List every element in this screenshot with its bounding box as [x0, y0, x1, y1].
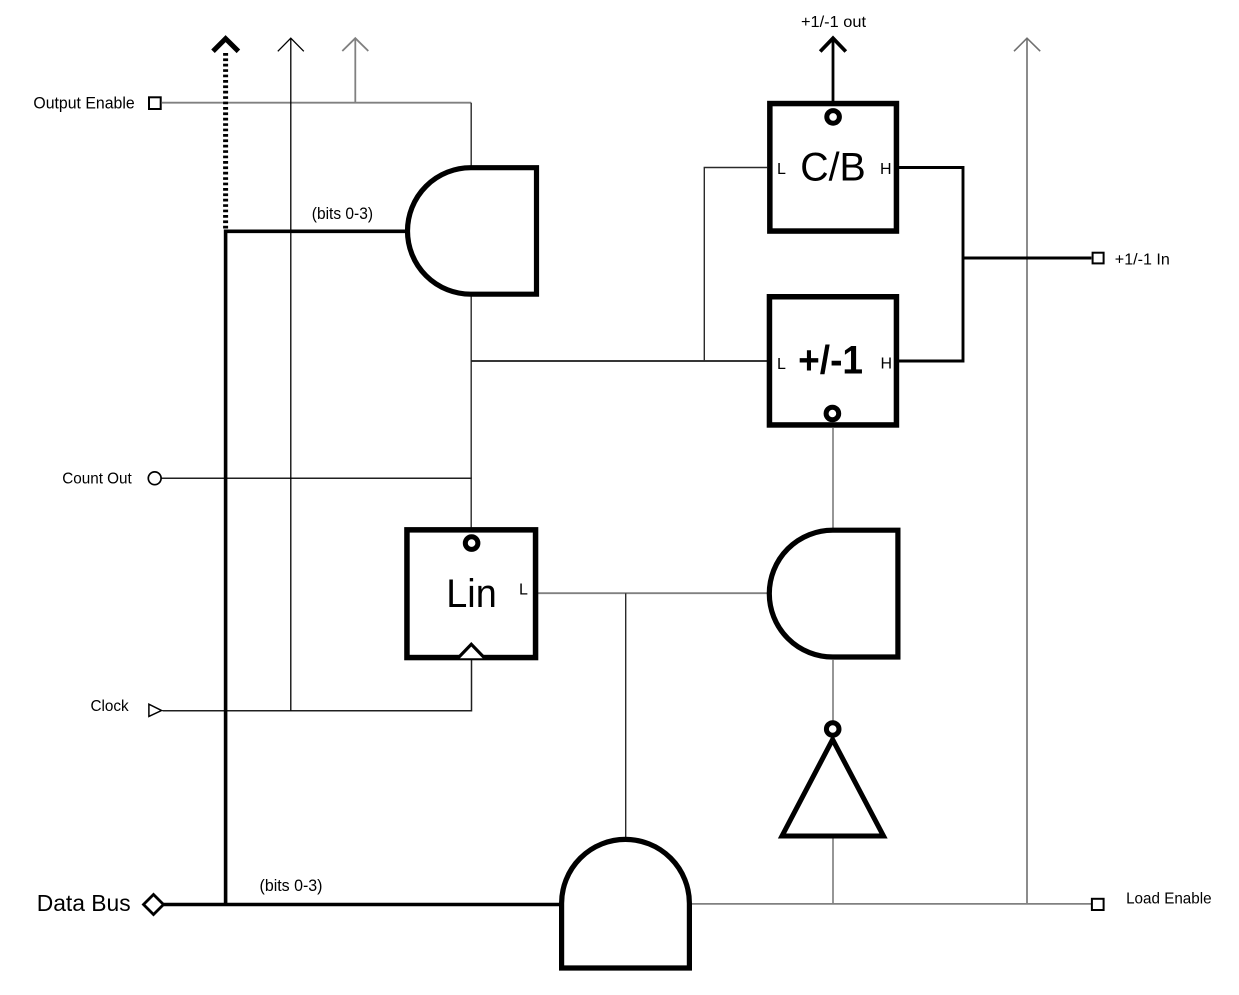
svg-text:H: H [880, 161, 892, 178]
wire: Lin output to AND G2 input (gray) with junction at x=625.7 [538, 592, 769, 594]
wire: vertical net x=471 from Output Enable down through AND gate G1 to Lin bubble [470, 103, 472, 529]
wire: Output Enable horizontal net (gray) [162, 102, 471, 104]
svg-text:H: H [881, 356, 893, 373]
svg-text:+1/-1 out: +1/-1 out [801, 14, 867, 31]
wire: dotted bus continuation x=225.6 above corner [223, 53, 228, 231]
terminal square: Output Enable [149, 97, 161, 109]
bubble on C/B top [827, 111, 840, 124]
wire: Data Bus thick horizontal from diamond into G3 [163, 903, 660, 907]
svg-text:Load Enable: Load Enable [1126, 891, 1212, 908]
box U3 Lin [407, 530, 536, 658]
wire: +1/-1 out stem above C/B [832, 41, 835, 102]
wire: Clock horizontal + riser to Lin clock pin [163, 660, 472, 711]
box U2 +/-1 [769, 297, 896, 425]
wire: Count Out horizontal [162, 477, 472, 479]
wire: +/-1 bubble down to G2 top [832, 428, 834, 528]
wire: vertical line x=355 gray with arrow, down to Output Enable wire [354, 39, 356, 103]
bubble on Lin top [465, 537, 478, 550]
svg-text:(bits 0-3): (bits 0-3) [260, 877, 323, 895]
clock chevron on Lin bottom edge [458, 644, 485, 658]
AND gate G2 (right-middle, facing left) [769, 530, 898, 657]
box U1 C/B [770, 104, 897, 232]
terminal circle: Count Out [148, 472, 161, 485]
arrow head bold dotted bus [213, 39, 238, 52]
svg-text:Output Enable: Output Enable [33, 95, 134, 113]
svg-text:L: L [777, 356, 786, 373]
wire: horizontal net y=361 from node x471 to +/-1 L pin [471, 360, 767, 362]
terminal square: +1/-1 In [1093, 253, 1104, 264]
terminal triangle: Clock [149, 704, 162, 716]
bubble on +/-1 bottom [826, 407, 839, 420]
wire: Load Enable horizontal (gray) from G3 right edge to terminal [664, 903, 1091, 905]
arrow head +1/-1 out (bold) [820, 38, 846, 51]
wire: C/B L pin to vertical x704 [704, 168, 767, 362]
svg-text:+1/-1 In: +1/-1 In [1115, 252, 1170, 269]
bubble on inverter apex [826, 723, 839, 736]
wire: inverter output down to Load Enable net [832, 839, 834, 904]
wire: vertical line x=290 with arrow top (thin black) [290, 39, 292, 711]
svg-text:C/B: C/B [800, 145, 866, 189]
wire: thick vertical bus x=225.6 with corner into G1 tip [226, 231, 407, 904]
wire: vertical line x=1027 gray with arrow, down to Load Enable wire [1026, 39, 1028, 904]
terminal square: Load Enable [1092, 899, 1104, 910]
svg-text:Data Bus: Data Bus [37, 890, 131, 916]
arrow head x=1027 [1014, 38, 1040, 51]
inverter Q1 triangle (pointing up) [782, 740, 884, 837]
arrow head x=290 [278, 38, 304, 51]
wire: C/B H pin net to +/-1 H and +1/-1 In terminal (thick) [899, 168, 963, 362]
wire: drop from Lin output net down to bottom gate G3 apex [625, 593, 627, 839]
svg-text:Clock: Clock [91, 698, 130, 715]
AND gate G3 (bottom, facing up) [562, 839, 690, 968]
AND gate G1 (top-left, facing left) [408, 168, 537, 295]
arrow head x=355 [342, 38, 368, 51]
svg-text:Lin: Lin [446, 572, 497, 616]
terminal diamond: Data Bus [144, 895, 164, 915]
svg-text:(bits 0-3): (bits 0-3) [312, 205, 373, 223]
svg-text:Count Out: Count Out [62, 471, 132, 488]
wire: G2 bottom down to inverter bubble [832, 660, 834, 721]
svg-text:+/-1: +/-1 [798, 339, 863, 383]
svg-text:L: L [777, 161, 786, 178]
wire: branch y=258 to +1/-1 In terminal [963, 257, 1091, 260]
svg-text:L: L [519, 582, 528, 599]
